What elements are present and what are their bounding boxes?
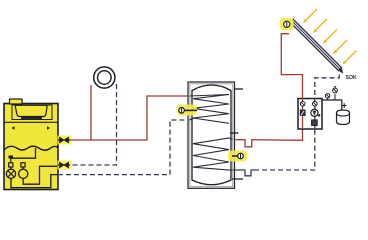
boiler internal pipe from right pump to upper outlet xyxy=(23,166,58,184)
solar pump xyxy=(311,109,320,116)
boiler left arrow xyxy=(12,126,15,129)
dashed pipe collector to pump station xyxy=(315,75,340,99)
flow meter xyxy=(312,120,318,126)
storage tank outer shell xyxy=(188,82,235,188)
red solar flow pipe tank to pump station xyxy=(236,129,303,147)
solar collector panel xyxy=(290,19,343,73)
sun ray 2 xyxy=(313,19,327,33)
solar expansion tank xyxy=(337,110,350,125)
boiler right arrow xyxy=(47,126,50,129)
dashed pipe expansion vessel to valve V2 xyxy=(70,84,117,165)
boiler water line (wavy) xyxy=(4,146,58,150)
boiler valve square right xyxy=(21,162,25,170)
valve V1 on boiler flow xyxy=(58,136,72,145)
red line through pump box left column xyxy=(302,99,304,130)
expansion vessel xyxy=(94,67,115,88)
gauge on expansion pipe xyxy=(325,94,329,100)
red branch to expansion vessel xyxy=(90,85,92,140)
gauge right xyxy=(313,102,318,107)
pump station box xyxy=(298,99,322,130)
boiler valve square left xyxy=(9,158,13,169)
safety valve on expansion pipe xyxy=(333,86,338,100)
tank mid tick xyxy=(230,132,239,134)
navy solar return stub with notch xyxy=(233,170,254,176)
boiler internal pipe T xyxy=(9,148,37,159)
dashed boiler return pipe to tank upper coil xyxy=(58,120,189,175)
tank lower coil xyxy=(193,138,233,170)
svg-text:SOK: SOK xyxy=(346,75,357,81)
dashed solar return pipe to pump station xyxy=(254,129,315,170)
boiler body xyxy=(4,104,58,190)
navy line through pump box right column xyxy=(314,99,316,130)
tank sensor lower (right) xyxy=(228,151,247,162)
check valve left xyxy=(300,110,306,117)
gauge left xyxy=(300,102,305,107)
boiler internal pipe from left pump to lower outlet xyxy=(11,175,58,188)
plus mark at expansion tank xyxy=(342,103,347,108)
valve V2 on boiler return xyxy=(58,161,72,170)
sun ray 5 xyxy=(343,51,357,65)
boiler panel separator xyxy=(4,121,58,123)
tank upper coil xyxy=(190,95,230,124)
collector sensor xyxy=(280,18,294,30)
red pipe collector to pump station xyxy=(281,34,302,99)
sun ray 1 xyxy=(303,9,317,23)
tank hot water outlet tick xyxy=(235,88,244,90)
red boiler flow pipe xyxy=(70,96,189,140)
storage tank inner vessel xyxy=(192,85,231,185)
boiler flue box xyxy=(10,99,23,104)
sun ray 3 xyxy=(323,30,337,44)
boiler pump circle right xyxy=(19,169,28,178)
tank sensor upper (left) xyxy=(177,105,198,116)
boiler pump circle left xyxy=(6,169,15,178)
boiler window xyxy=(15,105,47,116)
pipe pump box to solar expansion tank xyxy=(322,100,342,110)
sun ray 4 xyxy=(333,40,347,54)
tank cold water tick xyxy=(232,178,243,180)
boiler top recess xyxy=(12,105,52,120)
